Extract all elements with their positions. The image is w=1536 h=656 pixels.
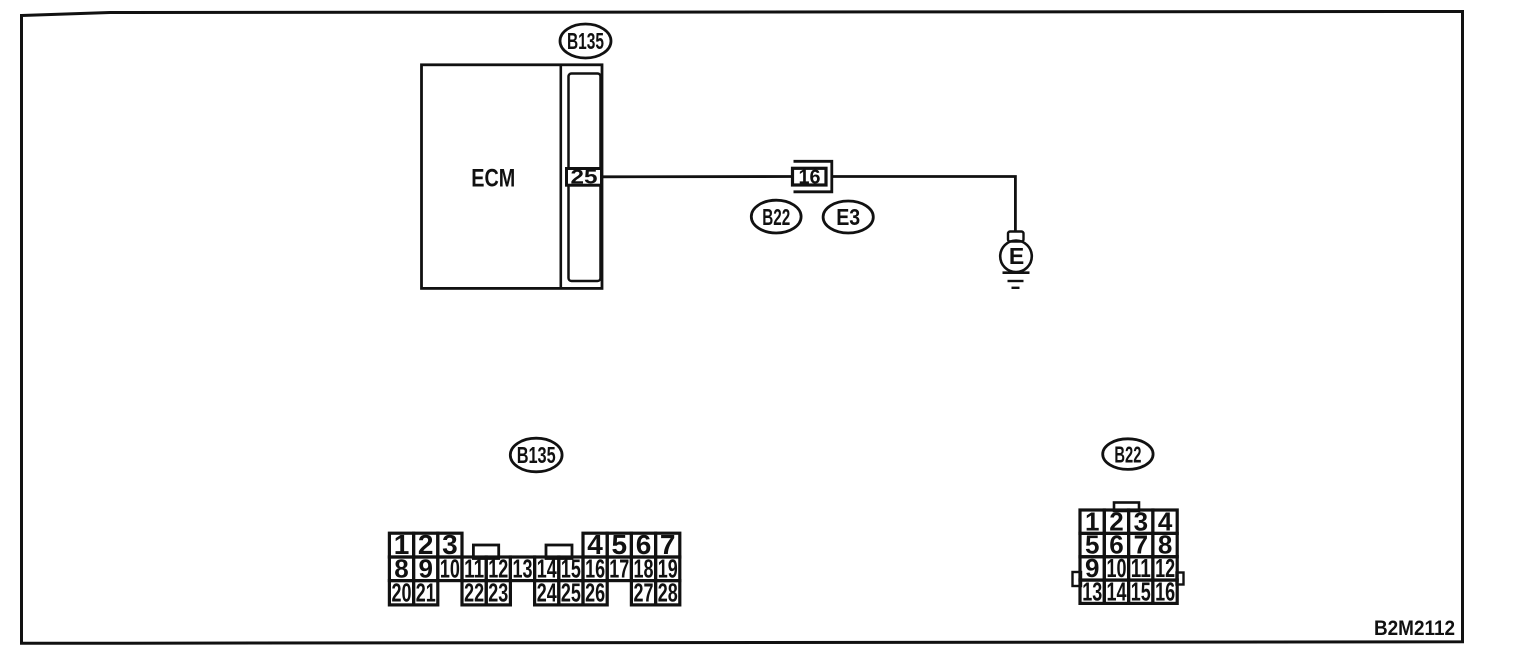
svg-text:17: 17 (609, 553, 629, 583)
ground terminal lug (1008, 232, 1024, 242)
svg-text:23: 23 (488, 578, 508, 608)
B135 pin 16 (583, 553, 607, 583)
B22 view right latch nub (1177, 573, 1184, 585)
B135 pin 21 (414, 578, 438, 608)
B22 pin 7 (1129, 530, 1153, 560)
B135 pin 17 (607, 553, 631, 583)
B22 pin 4 (1153, 506, 1177, 536)
connector label E3 (middle) (823, 201, 873, 233)
svg-text:13: 13 (1082, 576, 1102, 606)
svg-text:16: 16 (1155, 576, 1175, 606)
svg-text:B135: B135 (567, 28, 604, 54)
connector view label B135 (bottom) (510, 438, 562, 472)
B135 pin 9 (414, 553, 438, 583)
B135 pin 10 (438, 553, 462, 583)
svg-text:E: E (1009, 243, 1024, 269)
B135 pin 27 (631, 578, 655, 608)
B22 pin 11 (1129, 553, 1153, 583)
B135 view guide tab right (546, 545, 572, 559)
svg-text:21: 21 (416, 578, 436, 608)
svg-text:B135: B135 (517, 442, 556, 468)
svg-text:10: 10 (440, 553, 460, 583)
ground point E circle (1000, 240, 1032, 272)
svg-text:B22: B22 (762, 204, 790, 230)
svg-text:20: 20 (392, 578, 412, 608)
wire: connector 16 to ground E (832, 177, 1015, 232)
B22 pin 9 (1080, 553, 1104, 583)
pin 25 terminal box (567, 167, 602, 189)
B135 pin 20 (389, 578, 413, 608)
B22 pin 13 (1080, 576, 1104, 606)
B135 pin 4 (583, 529, 607, 560)
B135 pin 13 (510, 553, 534, 583)
B135 pin 24 (535, 578, 559, 608)
svg-text:26: 26 (585, 578, 605, 608)
B22 view top guide tab (1114, 503, 1139, 512)
B22 pin 12 (1153, 553, 1177, 583)
B135 pin 6 (631, 529, 655, 560)
connector B135 face on ECM (569, 74, 601, 282)
B22 pin 8 (1153, 530, 1177, 560)
B135 pin 23 (486, 578, 510, 608)
B135 pin 22 (462, 578, 486, 608)
B135 pin 18 (631, 553, 655, 583)
B22 pin 3 (1129, 506, 1153, 536)
wire: ECM pin 25 to in-line connector 16 (602, 175, 794, 178)
svg-text:24: 24 (537, 578, 557, 608)
svg-text:13: 13 (513, 553, 533, 583)
B135 pin 14 (535, 553, 559, 583)
B135 pin 25 (559, 578, 583, 608)
svg-text:27: 27 (634, 578, 654, 608)
svg-text:16: 16 (799, 166, 821, 188)
B135 pin 26 (583, 578, 607, 608)
connector label B135 (top) (560, 24, 611, 58)
B135 pin 12 (486, 553, 510, 583)
B135 connector pin-out view (389, 529, 679, 608)
B135 pin 7 (656, 529, 680, 560)
B22 pin 1 (1080, 506, 1104, 536)
B135 pin 28 (656, 578, 680, 608)
B22 pin 16 (1153, 576, 1177, 606)
svg-text:25: 25 (571, 167, 598, 189)
B135 pin 1 (389, 529, 413, 560)
connector label B22 (middle) (751, 200, 801, 233)
B22 pin 10 (1104, 553, 1128, 583)
svg-text:E3: E3 (836, 204, 860, 230)
B22 view left latch nub (1073, 572, 1082, 586)
svg-text:B22: B22 (1114, 441, 1141, 467)
B135 view guide tab left (473, 545, 498, 559)
B22 pin 6 (1104, 530, 1128, 560)
svg-text:25: 25 (561, 578, 581, 608)
B22 pin 5 (1080, 530, 1104, 560)
B135 pin 15 (559, 553, 583, 583)
svg-text:22: 22 (464, 578, 484, 608)
ground symbol strokes (1003, 273, 1030, 288)
B22 connector pin-out view (1073, 503, 1184, 607)
svg-text:B2M2112: B2M2112 (1374, 616, 1455, 640)
B22 pin 2 (1104, 506, 1128, 536)
B135 pin 19 (656, 553, 680, 583)
ECM U1 body (422, 65, 603, 289)
B22 pin 15 (1129, 576, 1153, 606)
in-line connector joint 16 (B22/E3) (793, 161, 832, 192)
connector view label B22 (bottom) (1103, 439, 1153, 470)
svg-text:14: 14 (1107, 576, 1127, 606)
B135 pin 2 (414, 529, 438, 560)
B135 pin 11 (462, 553, 486, 583)
svg-text:15: 15 (1131, 576, 1151, 606)
svg-text:28: 28 (658, 578, 678, 608)
B135 pin 8 (389, 553, 413, 583)
svg-text:ECM: ECM (471, 165, 515, 193)
B135 pin 5 (607, 529, 631, 560)
B22 pin 14 (1104, 576, 1128, 606)
B135 pin 3 (438, 529, 462, 560)
